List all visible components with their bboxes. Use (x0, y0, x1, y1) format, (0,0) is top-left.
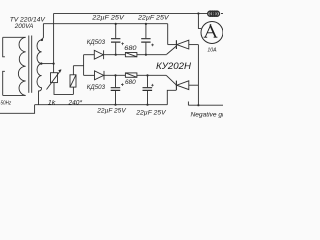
wire: primary bottom lead (3, 94, 26, 96)
wire: rheostat bottom lead (54, 83, 73, 95)
wire: row1 R3 to gate node (137, 54, 167, 56)
wire: link R240 to diode anode node (73, 65, 83, 67)
svg-text:22µF 25V: 22µF 25V (135, 109, 166, 116)
wire: anode vertical right side (197, 45, 199, 106)
label ammeter A (204, 25, 218, 38)
resistor R4 diagonal (125, 73, 136, 77)
wire: SCR1 cathode stub (168, 44, 177, 46)
transformer core line 2 (31, 36, 33, 93)
thyristor SCR2 triangle (177, 81, 189, 90)
resistor R2 diagonal (70, 75, 76, 87)
capacitor C2 plates (141, 39, 150, 42)
thyristor SCR2 KU202N cathode bar (175, 81, 177, 90)
label plus C2 (151, 44, 154, 47)
thyristor SCR1 KU202N cathode bar (175, 40, 177, 49)
svg-text:22µF 25V: 22µF 25V (91, 14, 124, 21)
wire: R240 top lead (72, 66, 74, 75)
thyristor SCR1 triangle (177, 40, 189, 49)
node secondary top tap dot (41, 39, 43, 41)
resistor R3 680 box row1 (125, 53, 136, 57)
wire: secondary bottom lead down to bottom rail (39, 88, 42, 105)
junction node row2 cap3 (114, 74, 116, 76)
capacitor C3 plates (111, 88, 121, 91)
ammeter PA1 circle (201, 22, 223, 44)
capacitor C3 top lead (115, 75, 117, 87)
transformer T1 primary winding (18, 37, 25, 95)
junction node bottom rail cap3 (114, 104, 116, 106)
wire: bottom rail right segment with terminal stub (188, 102, 223, 106)
capacitor C4 plates (143, 88, 153, 91)
capacitor C3 bottom lead (115, 91, 117, 105)
wire: SCR2 gate diagonal (166, 75, 176, 85)
inductor L1 loops (208, 11, 213, 16)
junction node row1 cap2 (145, 54, 147, 56)
diode D1 KD503 triangle (94, 50, 103, 59)
diode D2 cathode bar (103, 71, 105, 80)
capacitor C1 top lead (115, 24, 117, 39)
diode D1 cathode bar (103, 50, 105, 59)
wire: mains bottom stub 50Hz (0, 105, 35, 114)
wire: row1 D1 cathode to R3 (104, 54, 126, 56)
wire: SCR1 gate diagonal (167, 46, 177, 54)
svg-text:680: 680 (125, 79, 136, 86)
svg-text:1k: 1k (48, 100, 57, 107)
wire: top wire B horizontal (54, 12, 208, 14)
junction node wire B ammeter (197, 12, 199, 14)
junction node center tap (53, 63, 55, 65)
wire: diode anode node vertical (83, 55, 85, 76)
wire: bottom rail left segment (35, 104, 168, 106)
junction node bottom rail cap4 (146, 104, 148, 106)
rheostat R1 arrow (47, 70, 62, 90)
wire: row2 R4 to gate node (137, 74, 166, 76)
svg-text:КУ202Н: КУ202Н (156, 61, 192, 71)
wire: inductor to right edge (221, 12, 223, 14)
label plus C3 (121, 83, 124, 86)
wire: ammeter feed from wire B (198, 13, 201, 28)
svg-text:Negative gro: Negative gro (191, 112, 224, 119)
resistor R3 diagonal (125, 53, 136, 57)
wire: row1 diode D1 anode lead (84, 54, 95, 56)
diode D2 KD503 triangle (95, 71, 104, 80)
wire: row2 D2 anode lead (84, 74, 95, 76)
node secondary center tap dot (40, 62, 42, 64)
svg-text:22µF 25V: 22µF 25V (137, 14, 170, 21)
svg-text:КД503: КД503 (87, 84, 106, 91)
capacitor C1 bottom lead (115, 43, 117, 55)
capacitor C2 top lead (145, 24, 147, 39)
svg-text:КД503: КД503 (87, 39, 106, 46)
rheostat R1 1k box (51, 73, 58, 83)
svg-text:200VA: 200VA (14, 23, 34, 30)
rheostat R1 arrowhead (58, 69, 61, 72)
wire: SCR1 anode lead (189, 44, 199, 46)
svg-text:22µF 25V: 22µF 25V (96, 107, 126, 114)
wire: center tap horizontal (41, 63, 53, 65)
capacitor C4 top lead (147, 75, 149, 87)
wire: rail A drop to SCR1 cathode (167, 24, 169, 45)
junction node row2 cap4 (146, 74, 148, 76)
label plus C4 (151, 84, 154, 87)
svg-text:240*: 240* (67, 100, 82, 107)
capacitor C2 bottom lead (145, 43, 147, 55)
capacitor C1 plates (111, 39, 120, 42)
wire: secondary top tap link to rail A (42, 24, 44, 40)
resistor R2 240 box (70, 75, 76, 87)
wire: primary top lead (3, 36, 26, 38)
wire: rail A horizontal (top tap rail) (43, 23, 167, 25)
transformer core line 1 (28, 36, 30, 93)
wire: R240 bottom lead (72, 87, 74, 94)
label plus C1 (121, 42, 124, 45)
wire: SCR2 anode lead (189, 84, 199, 86)
transformer T1 secondary winding (37, 40, 42, 88)
wire: row2 D2 cathode to R4 (104, 74, 125, 76)
junction node bottom rail anode vertical (197, 104, 199, 106)
wire: mains left vertical lower segment (3, 71, 5, 95)
junction node rail A cap2 (145, 23, 147, 25)
svg-text:680: 680 (124, 45, 137, 52)
svg-text:50Hz: 50Hz (1, 101, 12, 107)
wire: center-tap vertical from top wire B down to rheostat (53, 13, 55, 72)
wire: mains left vertical upper segment (3, 37, 5, 56)
svg-text:10A: 10A (207, 47, 216, 53)
junction node rail A cap1 (115, 23, 117, 25)
capacitor C4 bottom lead (147, 91, 149, 105)
junction node row1 cap1 (115, 54, 117, 56)
wire: SCR2 cathode path to bottom rail (167, 90, 176, 104)
resistor R4 680 box row2 (125, 73, 136, 77)
